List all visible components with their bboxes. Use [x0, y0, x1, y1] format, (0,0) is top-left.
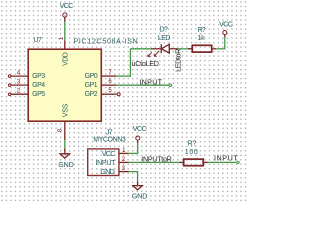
wire to LED cathode	[130, 48, 150, 50]
pin number 3	[122, 165, 126, 172]
svg-text:GP1: GP1	[85, 82, 98, 89]
chip U7 value label PIC12C508A-ISN	[74, 38, 139, 45]
pin 2 GP5	[8, 93, 28, 96]
pin number 2	[122, 156, 126, 163]
svg-text:100: 100	[185, 149, 199, 156]
pin name GP1	[85, 82, 98, 89]
wire pin3 to corner	[129, 171, 138, 173]
net label INPUTtoR	[141, 154, 171, 163]
pin 8 VSS	[64, 121, 66, 140]
LED value label	[158, 35, 170, 42]
wire GP1 INPUT	[117, 84, 169, 86]
pin 6 GP1	[101, 84, 116, 86]
svg-text:R?: R?	[188, 140, 197, 147]
pin number 6	[108, 78, 112, 85]
pin 5 GP2 (unconnected)	[101, 93, 120, 96]
svg-text:GND: GND	[100, 169, 114, 176]
pin number 8	[57, 128, 64, 132]
LED D?	[148, 44, 178, 57]
svg-text:VCC: VCC	[133, 126, 147, 133]
wire LED to R1	[178, 48, 193, 50]
pin number 2	[17, 88, 21, 95]
svg-text:INPUT: INPUT	[139, 77, 162, 86]
connector pin 2	[119, 161, 129, 163]
pin name VDD	[62, 52, 69, 66]
svg-text:VDD: VDD	[62, 52, 69, 66]
connector pin name INPUT	[95, 160, 116, 167]
svg-text:GND: GND	[132, 194, 147, 201]
wire pin1 to corner	[129, 152, 138, 154]
LED reference D?	[160, 26, 169, 33]
svg-text:INPUT: INPUT	[214, 153, 238, 162]
pin 7 GP0	[101, 75, 116, 77]
resistor R? 100	[179, 159, 208, 166]
wire corner down to GND	[137, 171, 139, 181]
pin name GP0	[85, 73, 98, 80]
chip U7 reference label	[33, 37, 42, 44]
svg-text:VCC: VCC	[60, 3, 73, 10]
pin 4 GP3	[8, 75, 28, 78]
pin name VSS	[62, 103, 69, 117]
connector reference J7	[106, 130, 113, 137]
svg-text:4: 4	[17, 70, 21, 77]
wire corner up to VCC	[137, 143, 139, 154]
svg-text:GND: GND	[58, 162, 74, 169]
svg-text:LEDtoR: LEDtoR	[174, 49, 183, 72]
pin 1 VDD	[64, 40, 66, 49]
svg-text:U7: U7	[33, 37, 42, 44]
pin 3 GP4	[8, 84, 28, 87]
svg-text:R?: R?	[198, 27, 206, 34]
pin name GP4	[32, 82, 45, 89]
power symbol VCC (top)	[63, 13, 67, 22]
pin number 5	[108, 87, 112, 94]
resistor R? 1k	[188, 45, 216, 52]
svg-text:GP4: GP4	[32, 82, 45, 89]
power label VCC (connector)	[133, 126, 147, 133]
svg-text:INPUT: INPUT	[95, 160, 116, 167]
ground label GND (connector)	[132, 194, 147, 201]
wire R2 to INPUT end	[208, 161, 236, 163]
connector value MYCONN3	[93, 136, 126, 143]
svg-text:D?: D?	[160, 26, 169, 33]
ground symbol (connector)	[133, 181, 142, 190]
svg-text:GP3: GP3	[32, 73, 45, 80]
resistor reference R?	[188, 140, 197, 147]
net label uCtoLED	[132, 59, 159, 68]
ground symbol (chip VSS)	[60, 148, 69, 158]
wire R1 to corner	[216, 48, 225, 50]
connector pin 1	[119, 152, 129, 154]
net label INPUT	[139, 77, 162, 86]
resistor value 1k	[198, 35, 206, 42]
chip U7 body	[28, 49, 101, 121]
net label LEDtoR	[174, 49, 183, 72]
pin number 1	[58, 36, 65, 40]
power label VCC (right)	[219, 22, 233, 29]
power label VCC (top)	[60, 3, 73, 10]
svg-text:VCC: VCC	[102, 151, 116, 158]
connector pin 3	[119, 171, 129, 173]
pin number 3	[17, 79, 21, 86]
power symbol VCC (connector)	[136, 136, 140, 143]
svg-text:VSS: VSS	[62, 103, 69, 117]
wire VCC to VDD	[64, 22, 66, 41]
svg-text:INPUTtoR: INPUTtoR	[141, 154, 171, 163]
svg-text:2: 2	[17, 88, 21, 95]
ground label GND (chip)	[58, 162, 74, 169]
wire corner up to LED row	[129, 49, 131, 77]
wire GP0 to corner	[117, 75, 131, 77]
net label INPUT (right)	[214, 153, 238, 162]
wire pin2 INPUTtoR	[129, 161, 179, 163]
connector J7 body	[88, 149, 119, 176]
pin number 7	[108, 69, 112, 76]
pin number 4	[17, 70, 21, 77]
resistor value 100	[185, 149, 199, 156]
svg-text:1k: 1k	[198, 35, 206, 42]
svg-text:PIC12C508A-ISN: PIC12C508A-ISN	[74, 38, 139, 45]
pin name GP3	[32, 73, 45, 80]
svg-text:GP0: GP0	[85, 73, 98, 80]
node INPUT dangling end (right)	[236, 161, 239, 164]
svg-text:GP5: GP5	[32, 91, 45, 98]
pin name GP5	[32, 91, 45, 98]
svg-text:uCtoLED: uCtoLED	[132, 59, 159, 68]
svg-text:3: 3	[17, 79, 21, 86]
connector pin name VCC	[102, 151, 116, 158]
wire corner up to VCC	[224, 37, 226, 49]
pin number 1	[122, 147, 126, 154]
svg-text:VCC: VCC	[219, 22, 233, 29]
power symbol VCC (right)	[223, 31, 227, 38]
node INPUT dangling end	[168, 83, 172, 87]
svg-text:GP2: GP2	[85, 91, 98, 98]
connector pin name GND	[100, 169, 114, 176]
wire VSS to GND	[64, 140, 66, 148]
resistor reference R?	[198, 27, 206, 34]
svg-text:MYCONN3: MYCONN3	[93, 136, 126, 143]
svg-text:LED: LED	[158, 35, 170, 42]
pin name GP2	[85, 91, 98, 98]
